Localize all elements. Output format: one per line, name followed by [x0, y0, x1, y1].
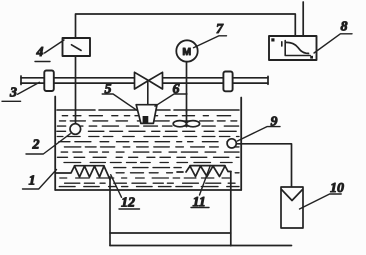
recorder 8 decay curve — [286, 42, 309, 53]
label 7 leader — [194, 36, 227, 48]
svg-text:3: 3 — [9, 86, 17, 101]
heater element 12 zigzag — [56, 166, 110, 180]
label 4 leader — [35, 40, 64, 62]
recorder 8 tick — [281, 42, 283, 46]
wire: bottom to heat exchanger 10 — [110, 245, 292, 247]
valve 5 body left triangle — [135, 72, 149, 89]
stirrer shaft through paddles — [186, 110, 188, 127]
sensor box 4 — [63, 38, 91, 56]
heat exchanger box 10 — [281, 187, 303, 228]
svg-text:12: 12 — [121, 196, 135, 211]
label 6 leader — [155, 94, 187, 106]
liquid dashes in tank 1 — [57, 110, 239, 187]
sensor box 4 inner tick — [72, 45, 82, 51]
dropper nozzle black square — [143, 116, 149, 123]
pipe 3 horizontal line top — [21, 77, 268, 79]
svg-text:7: 7 — [216, 22, 224, 37]
label 12 leader — [111, 175, 140, 209]
valve stem down to dropper — [147, 81, 149, 118]
float sensor 2 circle — [70, 124, 81, 135]
wire: heater 12 lead down — [109, 177, 111, 246]
svg-text:8: 8 — [341, 20, 348, 35]
label 3 leader — [2, 82, 40, 101]
recorder 8 axes — [285, 41, 310, 56]
label 5 leader — [102, 94, 137, 111]
wire: heater 11 lead down — [230, 172, 232, 246]
valve 5 body right triangle — [149, 72, 163, 89]
wire: vertical to top edge — [302, 2, 304, 36]
svg-text:M: M — [182, 46, 191, 58]
svg-text:5: 5 — [105, 82, 112, 97]
svg-text:4: 4 — [36, 45, 44, 60]
float sensor 9 circle — [227, 139, 236, 148]
coupler on pipe right — [223, 72, 232, 92]
wire: bottom connecting heaters — [110, 232, 231, 234]
label 1 leader — [23, 170, 57, 190]
label 2 leader — [26, 134, 70, 154]
stirrer paddle left ellipse — [173, 121, 186, 127]
motor 7 circle — [176, 40, 197, 61]
pipe left end cap — [20, 76, 22, 85]
label 9 leader — [237, 127, 280, 141]
motor 7 shaft — [186, 62, 188, 113]
wire: float 9 to heat exchanger 10 — [236, 144, 291, 187]
pipe right end cap — [267, 76, 269, 84]
label 8 leader — [314, 34, 352, 53]
recorder 8 terminal bottom-right — [310, 56, 313, 59]
label 11 leader — [191, 166, 210, 208]
svg-text:1: 1 — [29, 174, 36, 189]
heat exchanger 10 chevron — [282, 190, 303, 201]
pipe 3 horizontal line bottom — [21, 82, 268, 84]
stirrer paddle right ellipse — [186, 121, 199, 127]
wire: sensor 4 down to float 2 — [75, 56, 77, 124]
recorder 8 terminal top-left — [271, 38, 274, 41]
heater element 11 zigzag — [177, 166, 231, 177]
label 10 leader — [300, 194, 342, 209]
coupler on pipe left — [44, 71, 54, 92]
svg-text:2: 2 — [32, 138, 40, 153]
dropper cup 5 — [136, 105, 157, 124]
recorder box 8 — [269, 36, 317, 60]
wire: top supply line — [76, 14, 296, 38]
tank 1 walls — [55, 97, 241, 191]
